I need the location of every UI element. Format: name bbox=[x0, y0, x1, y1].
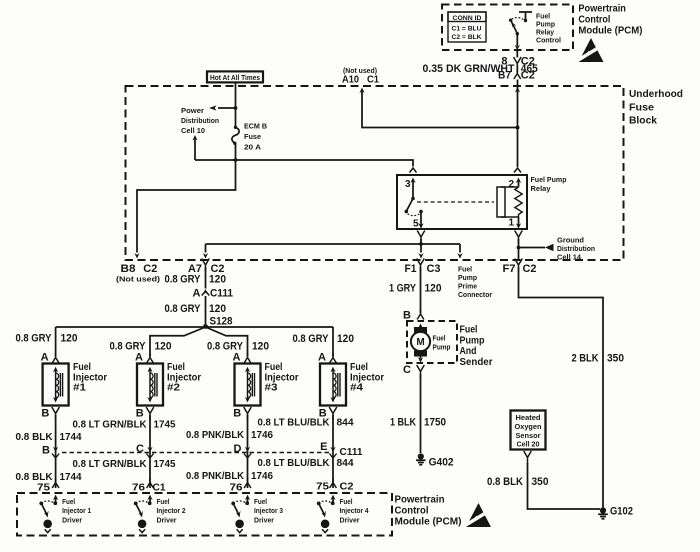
svg-text:#1: #1 bbox=[73, 382, 86, 394]
svg-text:Hot At All Times: Hot At All Times bbox=[210, 73, 260, 82]
svg-text:#3: #3 bbox=[265, 382, 278, 394]
svg-text:Connector: Connector bbox=[458, 290, 492, 299]
svg-text:2: 2 bbox=[508, 179, 514, 190]
svg-text:1745: 1745 bbox=[154, 458, 176, 470]
svg-text:A: A bbox=[41, 352, 49, 364]
svg-text:20 A: 20 A bbox=[244, 143, 262, 152]
svg-text:E: E bbox=[320, 441, 327, 453]
svg-text:G402: G402 bbox=[429, 457, 454, 469]
svg-text:1746: 1746 bbox=[251, 470, 273, 482]
svg-text:Power: Power bbox=[181, 106, 204, 115]
svg-text:C2: C2 bbox=[523, 263, 537, 275]
svg-text:0.8 GRY: 0.8 GRY bbox=[165, 274, 202, 286]
svg-text:0.8 GRY: 0.8 GRY bbox=[165, 303, 202, 315]
svg-text:0.8 BLK: 0.8 BLK bbox=[487, 476, 523, 488]
svg-text:120: 120 bbox=[209, 274, 226, 286]
svg-text:120: 120 bbox=[252, 341, 269, 353]
svg-text:B: B bbox=[233, 408, 241, 420]
svg-text:Sender: Sender bbox=[460, 356, 493, 368]
svg-text:Cell 10: Cell 10 bbox=[181, 126, 205, 135]
svg-text:Injector 1: Injector 1 bbox=[62, 506, 91, 515]
svg-text:3: 3 bbox=[405, 179, 411, 190]
svg-text:1: 1 bbox=[508, 218, 514, 229]
svg-text:Injector 4: Injector 4 bbox=[340, 506, 369, 515]
svg-text:Control: Control bbox=[578, 14, 610, 25]
svg-text:76: 76 bbox=[230, 482, 243, 494]
svg-text:Module (PCM): Module (PCM) bbox=[578, 26, 642, 37]
svg-text:0.8 LT GRN/BLK: 0.8 LT GRN/BLK bbox=[73, 458, 147, 470]
svg-text:Driver: Driver bbox=[340, 516, 360, 525]
svg-text:0.8 GRY: 0.8 GRY bbox=[16, 333, 53, 345]
svg-text:B7: B7 bbox=[498, 70, 511, 82]
svg-text:C1 = BLU: C1 = BLU bbox=[452, 26, 482, 33]
svg-text:120: 120 bbox=[155, 341, 172, 353]
svg-text:C: C bbox=[403, 364, 411, 376]
svg-text:C2: C2 bbox=[340, 481, 354, 493]
svg-text:A: A bbox=[193, 287, 201, 299]
svg-text:0.8 PNK/BLK: 0.8 PNK/BLK bbox=[186, 470, 244, 482]
svg-text:Sensor: Sensor bbox=[516, 433, 541, 440]
svg-text:2 BLK: 2 BLK bbox=[572, 353, 599, 365]
svg-text:120: 120 bbox=[425, 282, 442, 294]
svg-text:Module (PCM): Module (PCM) bbox=[395, 516, 462, 528]
svg-text:Fuel: Fuel bbox=[62, 497, 75, 506]
svg-text:Cell 14: Cell 14 bbox=[557, 253, 581, 262]
svg-text:Fuel: Fuel bbox=[157, 497, 170, 506]
svg-text:Fuel Pump: Fuel Pump bbox=[531, 175, 567, 184]
svg-text:76: 76 bbox=[132, 482, 145, 494]
svg-text:B8: B8 bbox=[121, 263, 136, 275]
svg-text:Cell 20: Cell 20 bbox=[517, 442, 540, 449]
svg-text:1750: 1750 bbox=[424, 417, 446, 429]
svg-text:ECM B: ECM B bbox=[244, 122, 268, 131]
svg-text:G102: G102 bbox=[610, 506, 633, 518]
svg-text:0.8 GRY: 0.8 GRY bbox=[293, 333, 330, 345]
svg-text:Control: Control bbox=[536, 36, 561, 45]
svg-text:1 BLK: 1 BLK bbox=[390, 417, 416, 429]
svg-text:350: 350 bbox=[607, 353, 624, 365]
svg-text:F1: F1 bbox=[405, 263, 417, 275]
svg-text:0.8 BLK: 0.8 BLK bbox=[16, 431, 53, 443]
svg-text:B: B bbox=[41, 408, 49, 420]
svg-text:Injector 3: Injector 3 bbox=[254, 506, 283, 515]
svg-text:B: B bbox=[42, 445, 50, 457]
svg-text:Driver: Driver bbox=[254, 516, 274, 525]
svg-text:1746: 1746 bbox=[251, 429, 273, 441]
svg-text:(Not used): (Not used) bbox=[116, 277, 160, 284]
svg-text:C1: C1 bbox=[367, 74, 379, 86]
svg-text:Fuel: Fuel bbox=[254, 497, 267, 506]
svg-text:Underhood: Underhood bbox=[629, 88, 683, 100]
svg-text:1 GRY: 1 GRY bbox=[389, 282, 417, 294]
svg-text:A: A bbox=[233, 352, 241, 364]
svg-text:A: A bbox=[318, 352, 326, 364]
svg-text:Driver: Driver bbox=[157, 516, 177, 525]
svg-text:Fuel: Fuel bbox=[340, 497, 353, 506]
svg-text:75: 75 bbox=[37, 482, 50, 494]
svg-text:C2: C2 bbox=[143, 263, 157, 275]
svg-text:B: B bbox=[403, 310, 411, 322]
svg-text:0.8 LT GRN/BLK: 0.8 LT GRN/BLK bbox=[73, 419, 147, 431]
svg-text:Powertrain: Powertrain bbox=[578, 3, 626, 14]
svg-text:1744: 1744 bbox=[60, 471, 82, 483]
svg-text:844: 844 bbox=[337, 417, 354, 429]
svg-text:1744: 1744 bbox=[60, 431, 82, 443]
svg-text:Heated: Heated bbox=[516, 415, 541, 422]
svg-text:M: M bbox=[416, 337, 424, 348]
svg-text:C2 = BLK: C2 = BLK bbox=[452, 34, 482, 41]
svg-text:0.8 LT BLU/BLK: 0.8 LT BLU/BLK bbox=[258, 417, 330, 429]
svg-text:F7: F7 bbox=[503, 263, 516, 275]
svg-text:844: 844 bbox=[337, 457, 354, 469]
svg-text:C1: C1 bbox=[153, 482, 166, 494]
svg-text:0.8 PNK/BLK: 0.8 PNK/BLK bbox=[186, 429, 244, 441]
svg-text:Oxygen: Oxygen bbox=[515, 424, 542, 431]
svg-text:Driver: Driver bbox=[62, 516, 82, 525]
svg-text:A10: A10 bbox=[342, 74, 359, 86]
svg-text:S128: S128 bbox=[210, 316, 233, 328]
svg-text:CONN ID: CONN ID bbox=[453, 15, 482, 22]
svg-text:A: A bbox=[135, 352, 143, 364]
svg-text:75: 75 bbox=[316, 481, 329, 493]
svg-text:#2: #2 bbox=[167, 382, 180, 394]
svg-text:#4: #4 bbox=[350, 382, 363, 394]
svg-text:D: D bbox=[234, 443, 242, 455]
svg-text:Fuse: Fuse bbox=[244, 132, 261, 141]
svg-text:Distribution: Distribution bbox=[181, 116, 219, 125]
svg-text:C2: C2 bbox=[521, 70, 535, 82]
svg-text:5: 5 bbox=[413, 219, 419, 230]
svg-text:C3: C3 bbox=[427, 263, 441, 275]
svg-text:120: 120 bbox=[61, 333, 78, 345]
svg-text:Fuse: Fuse bbox=[629, 102, 654, 114]
svg-text:C111: C111 bbox=[210, 287, 233, 299]
svg-text:350: 350 bbox=[532, 476, 549, 488]
svg-text:120: 120 bbox=[209, 303, 226, 315]
svg-text:0.8 LT BLU/BLK: 0.8 LT BLU/BLK bbox=[258, 457, 330, 469]
svg-text:Pump: Pump bbox=[433, 345, 451, 352]
svg-text:120: 120 bbox=[337, 333, 354, 345]
svg-text:1745: 1745 bbox=[154, 419, 176, 431]
svg-text:Block: Block bbox=[629, 115, 657, 127]
svg-text:Fuel: Fuel bbox=[433, 336, 446, 343]
svg-text:Injector 2: Injector 2 bbox=[157, 506, 186, 515]
svg-text:C: C bbox=[136, 443, 144, 455]
svg-text:Relay: Relay bbox=[531, 184, 552, 193]
